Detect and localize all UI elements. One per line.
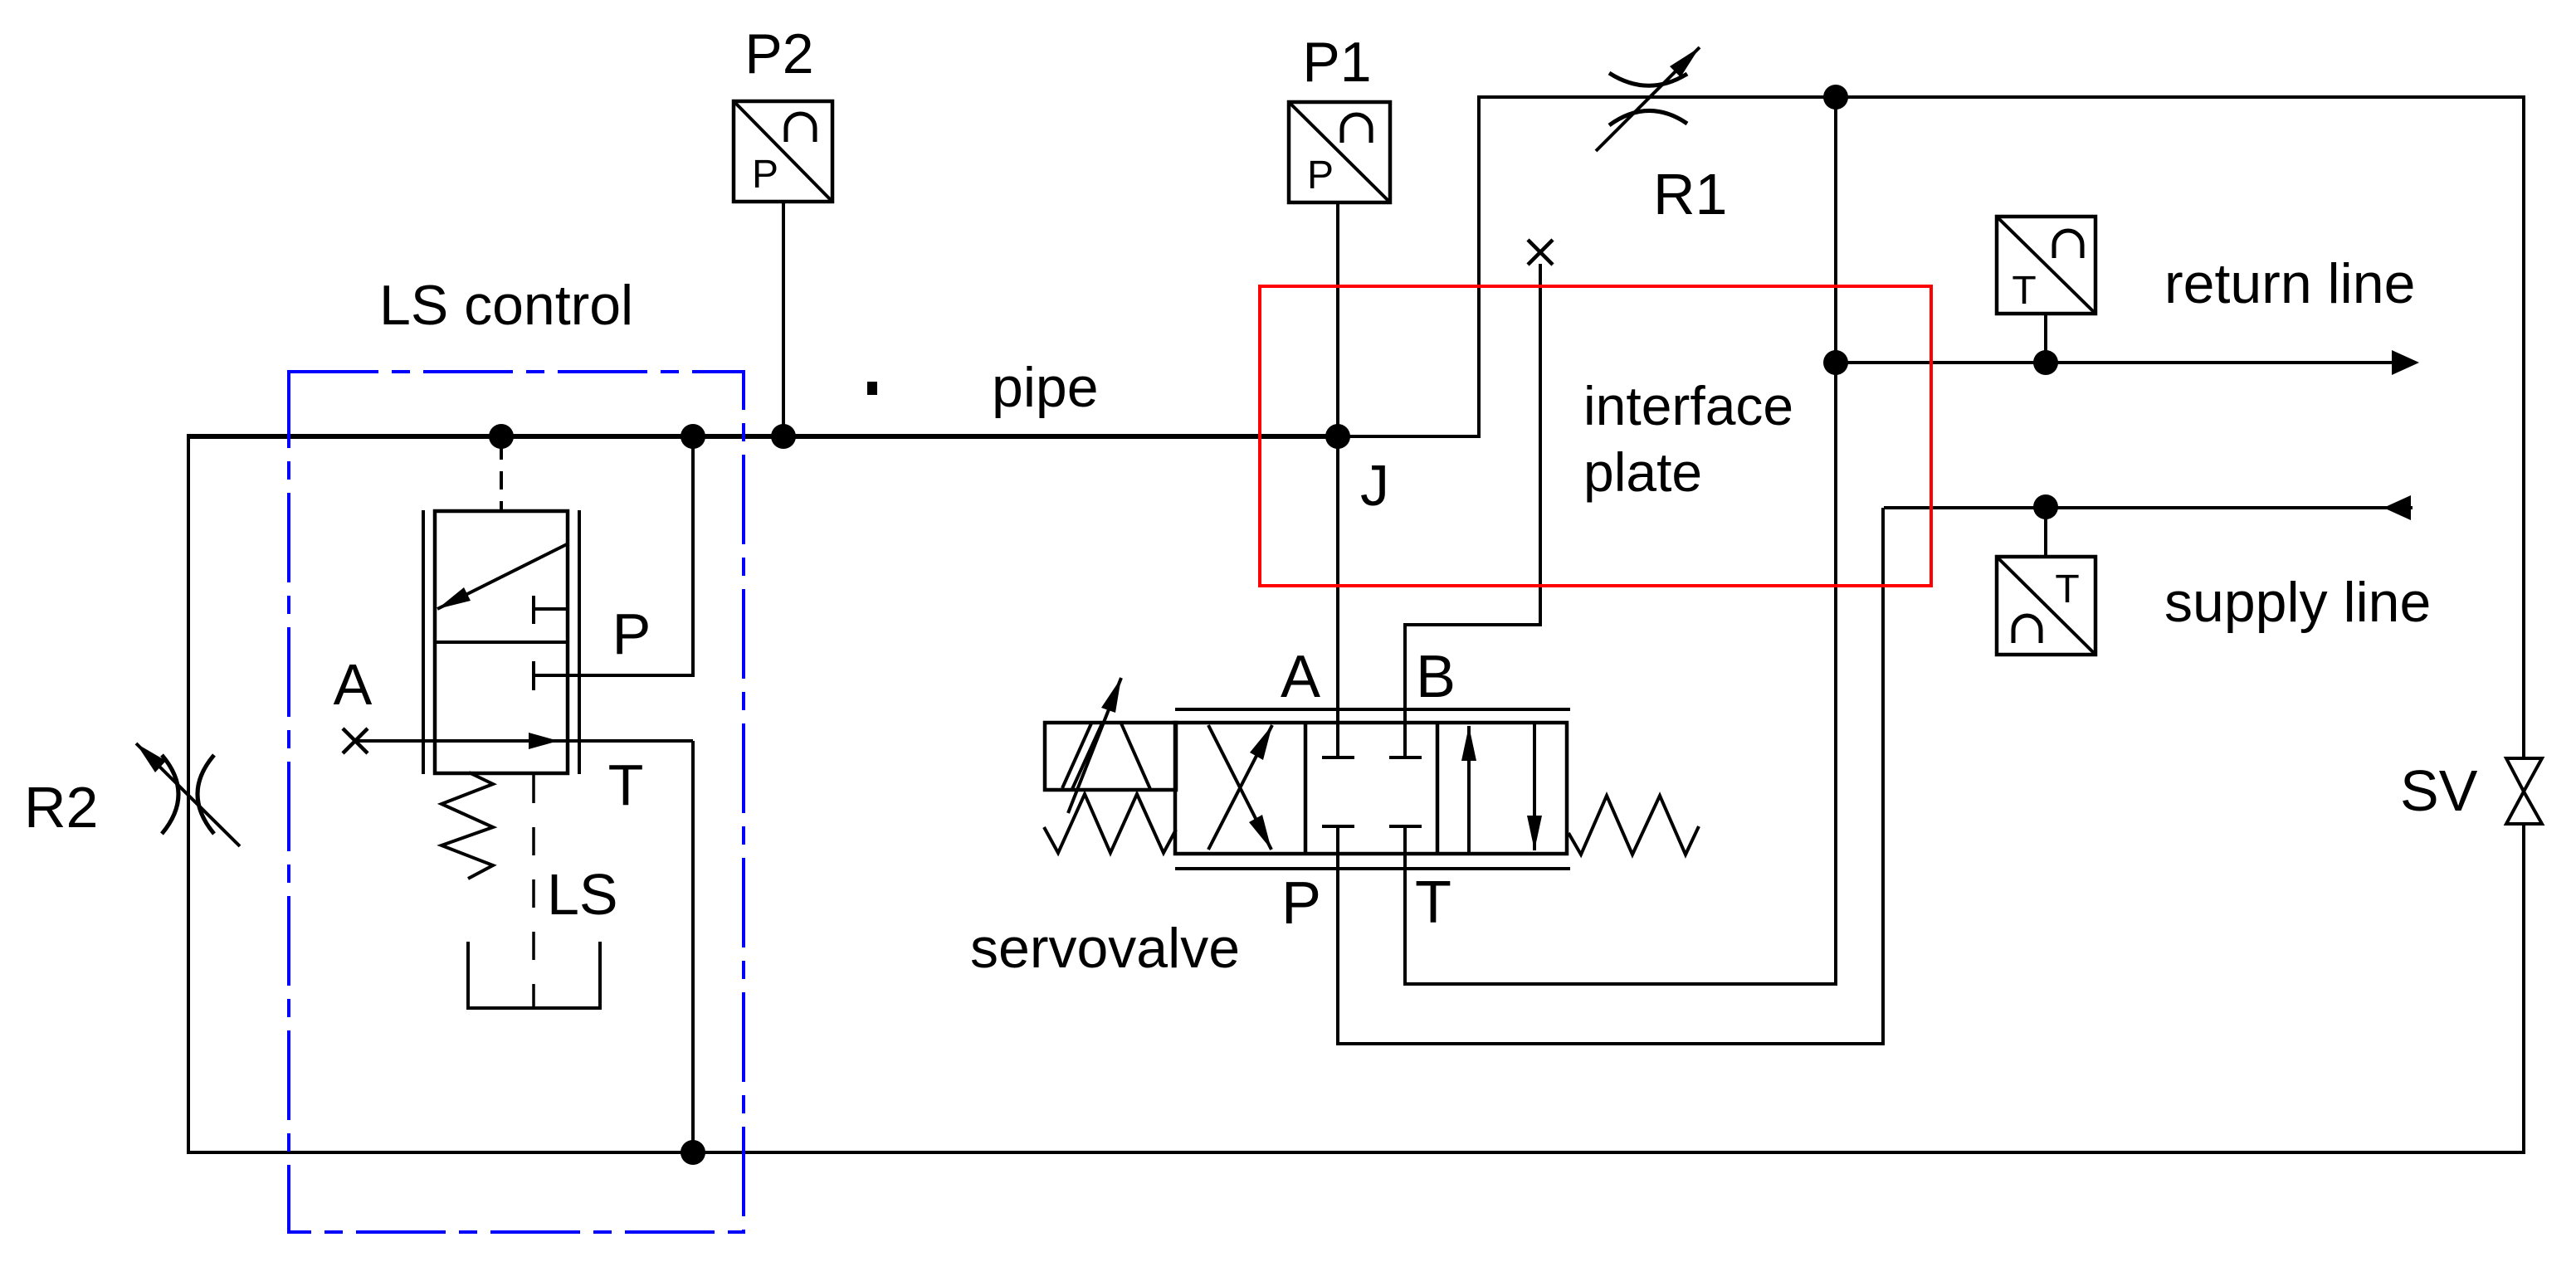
- svg-text:T: T: [608, 753, 644, 817]
- servovalve rails: [1175, 709, 1570, 869]
- label T at LS valve: [608, 753, 644, 817]
- label P1: [1302, 31, 1371, 94]
- wire right vertical below SV: [2522, 822, 2525, 1152]
- wire LS dashed pilot line: [532, 775, 535, 1006]
- svg-text:A: A: [1281, 644, 1320, 710]
- wire left vertical R2 branch: [187, 435, 190, 1154]
- wire LS valve T drain vertical: [691, 741, 695, 1152]
- servovalve crossed arrows left box: [1208, 725, 1272, 850]
- plugged port X above B: [1528, 240, 1553, 265]
- wire bottom return-to-tank line: [187, 1151, 2525, 1154]
- servovalve center box blocked ports: [1322, 723, 1422, 854]
- wire right vertical to SV upper: [2522, 95, 2525, 760]
- label interface plate: [1583, 375, 1793, 503]
- shutoff valve SV: [2506, 758, 2542, 824]
- label R1: [1653, 162, 1727, 226]
- svg-text:P2: P2: [744, 22, 813, 85]
- label LS: [547, 862, 618, 927]
- svg-text:pipe: pipe: [992, 356, 1099, 419]
- svg-text:P: P: [612, 602, 651, 666]
- svg-text:P: P: [752, 153, 778, 197]
- wire top horizontal R1 line: [1477, 95, 2525, 99]
- wire supply line horizontal: [1884, 495, 2413, 520]
- svg-text:B: B: [1416, 644, 1456, 710]
- svg-text:R1: R1: [1653, 162, 1727, 226]
- wire P1 transducer drop through node J to servovalve port A: [1336, 202, 1339, 723]
- svg-text:P: P: [1281, 870, 1321, 937]
- temperature transducer return line: [1997, 217, 2095, 314]
- wire supply transducer drop: [2044, 507, 2047, 557]
- label pipe: [992, 356, 1099, 419]
- svg-text:LS: LS: [547, 862, 618, 927]
- wire riser pipe-to-top: [1477, 97, 1481, 438]
- wire servovalve port T to return line: [1405, 364, 1836, 984]
- label J: [1360, 453, 1389, 518]
- interface plate red boundary: [1260, 286, 1931, 586]
- wire return branch vertical from top line: [1834, 97, 1837, 364]
- label supply line: [2164, 571, 2431, 634]
- label P2: [744, 22, 813, 85]
- svg-text:plate: plate: [1583, 441, 1702, 503]
- temperature transducer supply line: [1997, 557, 2095, 655]
- svg-text:T: T: [2055, 567, 2079, 611]
- label return line: [2164, 252, 2415, 315]
- node bottom line junction: [681, 1140, 705, 1165]
- label LS control: [379, 274, 633, 337]
- svg-text:SV: SV: [2400, 758, 2478, 823]
- node P2 junction: [771, 424, 796, 449]
- servovalve parallel arrows right box: [1461, 723, 1542, 854]
- label P at LS valve: [612, 602, 651, 666]
- svg-text:return line: return line: [2164, 252, 2415, 315]
- node supply transducer junction: [2033, 494, 2058, 519]
- wire return line horizontal: [1836, 350, 2419, 375]
- LS measuring bracket: [468, 942, 600, 1008]
- proportional solenoid: [1045, 678, 1176, 813]
- svg-text:servovalve: servovalve: [970, 917, 1240, 980]
- label B servovalve: [1416, 644, 1456, 710]
- svg-text:P1: P1: [1302, 31, 1371, 94]
- svg-text:T: T: [1415, 869, 1451, 936]
- node return transducer junction: [2033, 350, 2058, 375]
- svg-text:A: A: [334, 652, 373, 717]
- variable restrictor R1: [1596, 47, 1700, 151]
- LS valve flow arrow A to T: [529, 733, 559, 749]
- LS valve spring: [442, 772, 493, 879]
- wire P2 transducer drop: [782, 202, 785, 436]
- LS control valve body: [423, 510, 579, 774]
- wire pipe main horizontal: [187, 434, 1479, 439]
- wire LS valve port P to pipe: [534, 436, 693, 675]
- svg-text:J: J: [1360, 453, 1389, 518]
- label T servovalve: [1415, 869, 1451, 936]
- node top line junction: [1823, 85, 1848, 110]
- node pilot junction: [489, 424, 514, 449]
- node return line junction: [1823, 350, 1848, 375]
- speck artifact: [867, 382, 877, 395]
- LS valve variable arrow: [437, 544, 567, 609]
- servovalve body boxes: [1175, 723, 1567, 854]
- LS valve P port stub upper: [534, 596, 568, 624]
- svg-text:P: P: [1307, 153, 1334, 197]
- label servovalve: [970, 917, 1240, 980]
- label SV: [2400, 758, 2478, 823]
- label P servovalve: [1281, 870, 1321, 937]
- svg-text:LS control: LS control: [379, 274, 633, 337]
- pressure transducer P1: [1289, 102, 1390, 202]
- svg-text:supply line: supply line: [2164, 571, 2431, 634]
- pressure transducer P2: [734, 101, 832, 202]
- node J junction: [1325, 424, 1350, 449]
- LS valve P port stub lower: [532, 661, 535, 690]
- variable restrictor R2: [136, 743, 240, 846]
- wire servovalve port B to plugged port X: [1405, 264, 1540, 723]
- servovalve right spring: [1569, 796, 1699, 855]
- LS control blue boundary: [289, 372, 744, 1232]
- servovalve left spring: [1044, 794, 1176, 853]
- label A at LS valve: [334, 652, 373, 717]
- svg-text:T: T: [2012, 269, 2036, 313]
- wire LS valve port A line with plug to port T drain: [355, 739, 693, 743]
- plugged port X at A: [343, 728, 368, 753]
- wire return transducer drop: [2044, 314, 2047, 363]
- svg-text:R2: R2: [24, 775, 98, 840]
- node LS P junction: [681, 424, 705, 449]
- wire servovalve port P to supply line: [1338, 508, 1883, 1044]
- label A servovalve: [1281, 644, 1320, 710]
- label R2: [24, 775, 98, 840]
- wire pilot dashed from pipe to LS valve: [500, 441, 503, 511]
- svg-text:interface: interface: [1583, 375, 1793, 436]
